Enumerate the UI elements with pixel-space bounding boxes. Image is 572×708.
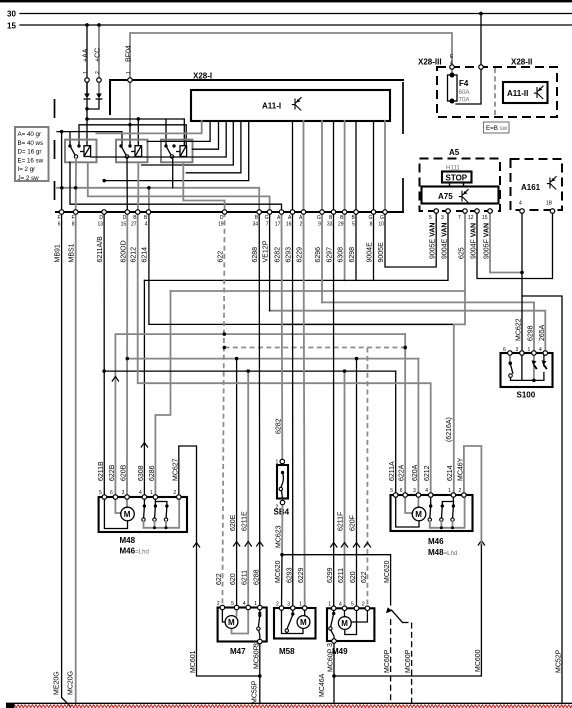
wire 622 dashed D19 to M47 [222, 212, 224, 608]
svg-text:G: G [317, 215, 321, 221]
op-amp A11-II [503, 82, 548, 103]
relay coil K2 to pin B27 [137, 162, 140, 212]
wire 9004E [373, 212, 375, 280]
svg-text:MC620: MC620 [275, 560, 282, 583]
X28-I pin G7 [265, 210, 272, 228]
motor M48 [121, 507, 135, 521]
wire 265A to S100 [270, 311, 546, 353]
X28-I pin G10 [378, 210, 387, 228]
svg-text:M: M [415, 510, 422, 519]
relay K1 output to pin F8 [75, 158, 77, 212]
wire drop to K2 coil [137, 119, 139, 146]
relay K3 [161, 140, 193, 163]
svg-text:1: 1 [126, 71, 132, 74]
wire A2 straight [303, 121, 305, 212]
svg-text:6: 6 [58, 222, 61, 228]
wire 620OD/620B D15 to M48 pin3 [126, 212, 128, 495]
svg-text:MC46A: MC46A [319, 673, 326, 697]
svg-text:MC60P: MC60P [405, 649, 412, 673]
svg-text:STOP: STOP [446, 174, 468, 183]
wire MC46Y to MC600 [464, 446, 482, 545]
wire 622A to M46 pin6 [404, 334, 406, 495]
svg-text:6286: 6286 [149, 465, 156, 481]
svg-text:BF04: BF04 [126, 45, 133, 62]
wire A16 straight [292, 121, 294, 212]
pin 1 BF04 on X28-I [128, 78, 132, 82]
svg-text:MC600: MC600 [475, 649, 482, 672]
svg-text:3: 3 [516, 347, 519, 353]
X28-I pin D15 [121, 210, 130, 228]
svg-text:5: 5 [429, 215, 432, 221]
svg-text:6211A: 6211A [389, 461, 396, 481]
svg-text:1: 1 [448, 488, 451, 494]
svg-text:6211E: 6211E [242, 511, 249, 531]
svg-text:5: 5 [231, 601, 234, 607]
svg-text:6308: 6308 [138, 465, 145, 481]
svg-text:620: 620 [350, 571, 357, 583]
wire MBS1 to ground [75, 212, 77, 705]
svg-text:G: G [369, 215, 373, 221]
svg-text:9: 9 [318, 222, 321, 228]
svg-text:6299: 6299 [327, 567, 334, 583]
svg-text:6282: 6282 [275, 247, 282, 263]
svg-text:15: 15 [482, 215, 488, 221]
wire 6293 A16 to M58 pin3 [292, 212, 294, 608]
wire 6308 B29 to M48 pin4 [344, 212, 346, 280]
svg-text:E=B sw: E=B sw [486, 125, 508, 132]
motor M58 [297, 616, 310, 629]
motor unit M47 [217, 601, 267, 642]
stub to 6211A/B junction [104, 121, 249, 181]
svg-text:3: 3 [441, 215, 444, 221]
svg-text:6297: 6297 [327, 247, 334, 263]
svg-text:MC60P: MC60P [328, 648, 335, 672]
wire BF04 drop to K2 contact [129, 125, 131, 146]
svg-text:16: 16 [286, 222, 292, 228]
svg-text:MC60P: MC60P [253, 645, 260, 669]
wire 6298 B5 to S100 [322, 302, 534, 353]
X28-I pin A17 [275, 210, 284, 228]
svg-text:6211A/B: 6211A/B [97, 236, 104, 263]
wire MC622 A161 pin4 to S100 pin3 [521, 211, 523, 353]
svg-text:X28-III: X28-III [418, 58, 442, 67]
svg-text:6298: 6298 [349, 247, 356, 263]
svg-text:5: 5 [390, 488, 393, 494]
svg-text:(6216A): (6216A) [446, 417, 453, 442]
svg-text:1: 1 [83, 71, 89, 74]
wire drop to K1 contact [69, 132, 71, 146]
svg-text:D: D [123, 215, 127, 221]
svg-text:A11-II: A11-II [507, 89, 528, 98]
svg-text:4: 4 [539, 347, 542, 353]
svg-text:6212: 6212 [424, 465, 431, 481]
motor unit M58 [274, 602, 316, 639]
svg-text:M46=Lhd: M46=Lhd [120, 547, 150, 556]
svg-text:2: 2 [95, 71, 101, 74]
ECU A161 [511, 159, 563, 210]
svg-text:6298: 6298 [528, 325, 535, 341]
svg-text:9005E: 9005E [378, 242, 385, 263]
svg-text:620: 620 [230, 573, 237, 585]
wire MB91 inside [61, 132, 63, 212]
svg-text:M: M [341, 619, 348, 628]
wire drop to K3 contact [165, 119, 167, 146]
svg-text:6211: 6211 [242, 570, 249, 585]
svg-text:1: 1 [528, 347, 531, 353]
switch SB4 [274, 459, 290, 516]
svg-text:6308: 6308 [338, 247, 345, 263]
svg-text:19: 19 [218, 222, 224, 228]
svg-text:6211F: 6211F [338, 512, 345, 531]
wire VE12P continuation [269, 212, 271, 311]
svg-text:H111: H111 [446, 165, 460, 172]
svg-text:M46: M46 [428, 537, 444, 546]
svg-text:15: 15 [121, 222, 127, 228]
svg-text:1: 1 [328, 602, 331, 608]
diode D+AA [84, 80, 90, 99]
svg-text:1: 1 [254, 601, 257, 607]
wire MC627 to MC601 [179, 446, 260, 676]
pin E4 [450, 65, 454, 69]
svg-text:MB91: MB91 [55, 244, 62, 262]
svg-text:G: G [265, 215, 269, 221]
wire MC60P dashed left [390, 619, 392, 704]
wire MB91 rail [57, 132, 122, 146]
svg-text:30: 30 [7, 10, 16, 19]
top border bar [0, 0, 572, 2]
X28-I pin B4 [144, 210, 151, 228]
wire branch to MC52P [522, 296, 562, 704]
svg-text:E= 16 sw: E= 16 sw [18, 157, 44, 164]
svg-text:5: 5 [99, 490, 102, 496]
svg-text:6214: 6214 [142, 247, 149, 263]
A11-I output stubs bending to relays [96, 121, 201, 133]
svg-text:M: M [300, 618, 307, 627]
wire 6211 main F [104, 370, 396, 372]
X28-I pin B27 [131, 210, 140, 228]
svg-text:622A: 622A [399, 464, 406, 481]
X28-III / X28-II connector box [418, 54, 557, 117]
wire MC620 [282, 555, 391, 605]
svg-text:8: 8 [72, 222, 75, 228]
svg-text:5: 5 [352, 222, 355, 228]
X28-I pin B29 [338, 210, 347, 228]
X28-I pin B34 [253, 210, 262, 228]
X28-I pin A16 [286, 210, 295, 228]
svg-text:6: 6 [503, 347, 506, 353]
wire 6296 G9 down [321, 212, 323, 302]
X28-I pin F8 [71, 210, 77, 228]
switch S100 [501, 347, 553, 400]
wire dashed diagonal [403, 622, 412, 624]
junction dots top layer [60, 12, 536, 678]
relay K2 [116, 140, 148, 163]
wire drop to K3 coil [183, 119, 185, 146]
X28-I pin D13 [97, 210, 106, 228]
svg-text:4: 4 [243, 601, 246, 607]
svg-text:6211B: 6211B [98, 461, 105, 481]
svg-text:6: 6 [110, 490, 113, 496]
svg-text:6229: 6229 [297, 247, 304, 263]
wire inside to fuse bottom [456, 67, 481, 104]
pin 2 +CC on X28-I [97, 78, 101, 82]
wire 620 main E [127, 358, 418, 360]
svg-text:M58: M58 [279, 647, 295, 656]
X28-I pin G8 [369, 210, 376, 228]
svg-text:A75: A75 [438, 192, 453, 201]
svg-text:620B: 620B [121, 464, 128, 481]
wire +AA down to relay K1 coil [86, 99, 88, 146]
svg-text:6282: 6282 [276, 418, 283, 434]
X28-I pin B33 [327, 210, 336, 228]
wire to pin B34 [57, 188, 259, 212]
svg-text:2: 2 [300, 222, 303, 228]
svg-text:1: 1 [150, 490, 153, 496]
wire feed rail to coils [87, 118, 184, 120]
svg-text:MC60P: MC60P [384, 649, 391, 673]
X28-I box [55, 72, 404, 213]
svg-text:6: 6 [400, 488, 403, 494]
wire 6211 to M47 pin4 [247, 371, 249, 607]
svg-text:620OD: 620OD [120, 240, 127, 262]
wire 9004F A75 to A161 pin1B [477, 211, 553, 279]
svg-text:X28-II: X28-II [511, 58, 532, 67]
svg-text:10: 10 [378, 222, 384, 228]
node on 30 feeding X28-II [479, 12, 483, 16]
svg-text:622: 622 [361, 571, 368, 583]
svg-text:6211: 6211 [338, 568, 345, 583]
pin X28-II from bus 30 [479, 65, 483, 69]
svg-text:1B: 1B [546, 201, 553, 207]
motor unit M49 [327, 602, 374, 642]
svg-text:1: 1 [299, 602, 302, 608]
svg-text:G: G [380, 215, 384, 221]
wire 6288 B34 to M47 pin1 [258, 212, 261, 608]
wire 9005E [385, 211, 436, 267]
svg-text:2: 2 [362, 602, 365, 608]
svg-text:A= 40 gr: A= 40 gr [18, 131, 42, 138]
svg-text:5: 5 [351, 602, 354, 608]
wire 6297/6299 B33 to M49 pin1 [333, 212, 335, 608]
relay K2 output to pin D15 [126, 158, 128, 212]
svg-text:13: 13 [97, 222, 103, 228]
wire MB91 to ground [62, 212, 70, 706]
wire 6211 to M49 pin4 [344, 371, 346, 607]
X28-I pin D19 [218, 210, 227, 228]
motor M49 [338, 617, 351, 630]
svg-text:+CC: +CC [95, 48, 102, 62]
svg-text:J= 2 sw: J= 2 sw [18, 175, 40, 182]
control unit A5 [420, 148, 501, 211]
X28-I pin A2 [299, 210, 306, 228]
svg-text:2: 2 [173, 490, 176, 496]
svg-text:MC52P: MC52P [556, 649, 563, 673]
svg-text:3: 3 [122, 490, 125, 496]
svg-text:4: 4 [339, 602, 342, 608]
svg-text:I= 2 gr: I= 2 gr [18, 166, 36, 173]
motor M47 [225, 616, 238, 629]
svg-text:M48=Lhd: M48=Lhd [428, 548, 458, 557]
svg-text:MC55P: MC55P [252, 680, 259, 704]
wire 6286 [171, 290, 466, 292]
svg-text:M: M [228, 618, 235, 627]
wire to pin A17 [70, 162, 282, 212]
relay coil K3 to pin D19 [183, 162, 224, 212]
wire 625 [283, 211, 465, 324]
svg-text:2: 2 [276, 602, 279, 608]
svg-text:6214: 6214 [447, 465, 454, 481]
svg-text:265A: 265A [539, 324, 546, 341]
wire MC60P dashed right [411, 623, 413, 704]
svg-text:A161: A161 [521, 183, 541, 192]
relay K3 output joins B4 line [172, 158, 174, 188]
svg-text:M47: M47 [230, 647, 246, 656]
svg-text:6212: 6212 [131, 247, 138, 263]
A5 pins [434, 209, 438, 213]
svg-text:622: 622 [216, 573, 223, 585]
svg-text:MC620: MC620 [384, 560, 391, 583]
svg-text:620F: 620F [350, 515, 357, 531]
pin circles top layer [59, 65, 554, 644]
svg-text:3: 3 [287, 602, 290, 608]
wire M47 pin3 to ground [259, 642, 261, 704]
svg-text:4: 4 [425, 488, 428, 494]
wire 622 main [115, 334, 405, 495]
motor M46 [412, 507, 426, 521]
label E=B sw [484, 122, 510, 133]
svg-text:F4: F4 [459, 79, 469, 88]
svg-text:6293: 6293 [286, 247, 293, 263]
svg-text:MC622: MC622 [516, 318, 523, 341]
svg-text:S100: S100 [517, 391, 536, 400]
svg-text:D: D [99, 215, 103, 221]
svg-text:29: 29 [338, 222, 344, 228]
wire to pin G7 [88, 162, 270, 212]
svg-text:ME20G: ME20G [54, 671, 61, 695]
wire 620 to M47 pin5 [236, 359, 238, 608]
svg-text:620E: 620E [230, 514, 237, 531]
svg-text:2: 2 [459, 488, 462, 494]
X28-I pin B5 [352, 210, 359, 228]
svg-text:4: 4 [139, 490, 142, 496]
svg-text:4: 4 [519, 201, 522, 207]
wire 9005F A75 to A161 pin4 [490, 211, 522, 273]
svg-text:12: 12 [468, 215, 474, 221]
svg-text:6296: 6296 [315, 247, 322, 263]
svg-text:9004E: 9004E [367, 242, 374, 263]
X28-I pin G9 [317, 210, 324, 228]
svg-text:15: 15 [7, 22, 16, 31]
svg-text:70A: 70A [459, 97, 471, 104]
svg-text:17: 17 [275, 222, 281, 228]
svg-text:A5: A5 [449, 148, 460, 157]
svg-text:7: 7 [458, 215, 461, 221]
wire 6214 B4 to M46 pin1 [149, 212, 454, 324]
svg-text:8: 8 [370, 222, 373, 228]
motor unit M48 [99, 490, 187, 532]
X28-I pin F6 [57, 210, 63, 228]
wire from bus 30 down [480, 14, 482, 67]
svg-text:A11-I: A11-I [262, 102, 281, 111]
svg-text:34: 34 [253, 222, 259, 228]
svg-text:4: 4 [145, 222, 148, 228]
svg-text:D= 16 gr: D= 16 gr [18, 149, 42, 156]
wire join +CC into +AA [87, 99, 99, 109]
svg-text:6229: 6229 [298, 567, 305, 583]
svg-text:MBS1: MBS1 [69, 243, 76, 262]
wire 620A to M46 pin3 [417, 359, 419, 495]
wire +AA [83, 25, 90, 93]
wire 620 to M49 pin5 [356, 359, 358, 608]
motor unit M46 [390, 488, 472, 531]
wire MC623 SB4 down [281, 503, 284, 555]
wire 6211A to M46 pin5 [395, 371, 397, 495]
fuse F4 [448, 67, 471, 104]
op-amp A11-I [191, 90, 390, 121]
wire 6229 A2 to M58 pin1 [304, 212, 305, 608]
wire +CC [95, 25, 102, 93]
wire BF04 drop [126, 45, 133, 125]
wire 6211A/B D13 to M48 pin5 [103, 212, 105, 495]
svg-text:3: 3 [413, 488, 416, 494]
arrow break MC620 [392, 610, 403, 623]
svg-text:M48: M48 [120, 536, 136, 545]
svg-text:M: M [124, 510, 131, 519]
svg-text:VE12P: VE12P [263, 240, 270, 262]
svg-text:F: F [71, 215, 74, 221]
svg-text:622B: 622B [109, 464, 116, 481]
wire BF04 rail [79, 125, 186, 146]
legend box [15, 127, 49, 182]
svg-text:7: 7 [266, 222, 269, 228]
svg-text:620A: 620A [412, 464, 419, 481]
node +AA on 15 [85, 23, 89, 27]
svg-text:F: F [57, 215, 60, 221]
svg-text:2: 2 [217, 601, 220, 607]
continuation arrows [112, 377, 119, 382]
wire M58 pin2 [281, 555, 284, 608]
wire 6212 B27 to M46 pin4 [138, 212, 431, 495]
svg-text:6293: 6293 [286, 567, 293, 583]
wire BF04 horizontal from fuse to X28-I [130, 33, 452, 80]
svg-text:B= 40 ws: B= 40 ws [18, 140, 44, 147]
svg-text:MC623: MC623 [276, 525, 283, 548]
ground bus bar [6, 702, 572, 704]
relay K1 [65, 140, 97, 163]
svg-text:+AA: +AA [83, 48, 90, 62]
svg-text:6288: 6288 [252, 247, 259, 263]
wire 622 dashed branch to M49 [224, 347, 405, 349]
svg-text:27: 27 [131, 222, 137, 228]
wire 6282 A17 to SB4 [281, 212, 284, 461]
svg-text:D: D [220, 215, 224, 221]
node +CC on 15 [97, 23, 101, 27]
svg-text:33: 33 [327, 222, 333, 228]
diode D+CC [96, 80, 102, 99]
pin 1 +AA on X28-I [85, 78, 89, 82]
svg-text:MC20G: MC20G [68, 671, 75, 695]
svg-text:MC601: MC601 [190, 650, 197, 673]
svg-text:60A: 60A [459, 89, 471, 96]
A11-I straight stubs to pins [321, 121, 323, 212]
wire M49 pin3 to ground [333, 641, 335, 704]
